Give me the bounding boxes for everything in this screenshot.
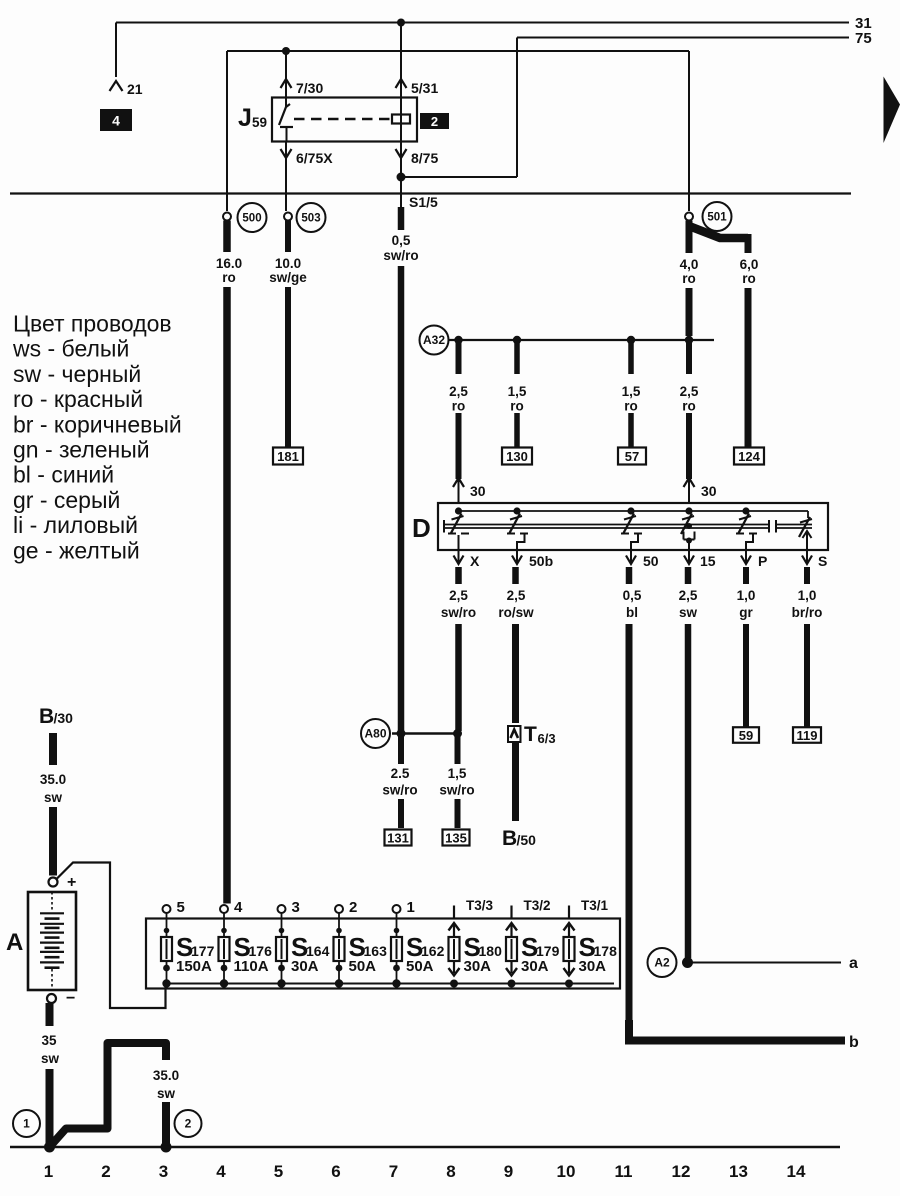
wire 1,0 br/ro from S [804,567,810,728]
relay J59 internal switch [279,98,293,142]
svg-text:J: J [238,104,252,132]
svg-text:sw/ro: sw/ro [441,605,476,620]
connector T6/3 [508,726,521,742]
svg-text:503: 503 [301,213,320,225]
relay pin 8/75 [396,142,439,208]
svg-text:2: 2 [185,1117,192,1131]
svg-text:178: 178 [594,943,618,959]
ground point 2 [161,1110,202,1153]
wire 1,5 ro to 130 [514,340,520,447]
svg-text:6,0: 6,0 [740,257,759,272]
svg-text:sw/ro: sw/ro [439,783,474,798]
fuse S177 150A [161,899,215,988]
label 35.0 sw [40,772,66,805]
label 0,5 bl [623,588,642,620]
wire to B/50 [512,742,519,821]
junction 7/30 [282,47,290,55]
wire 35.0 sw to battery [49,733,57,876]
switch D internal supply line [459,511,809,518]
svg-text:5: 5 [177,899,185,916]
svg-text:T3/2: T3/2 [524,898,551,913]
svg-text:X: X [470,553,480,569]
svg-text:59: 59 [739,728,753,743]
terminal 15 output [684,550,716,569]
terminal 30 arrow left [453,478,486,503]
switch contact S [799,517,812,550]
relay pin 7/30 [281,51,324,98]
svg-text:16.0: 16.0 [216,256,242,271]
fuse box bottom bus [166,983,614,985]
svg-text:8: 8 [446,1162,455,1181]
svg-text:2,5: 2,5 [679,588,698,603]
svg-text:3: 3 [292,899,300,916]
terminal box 131 [385,830,412,846]
svg-text:B: B [39,705,54,728]
svg-text:21: 21 [127,81,143,97]
wire 10.0 sw/ge [285,221,291,448]
svg-text:ro: ro [222,270,236,285]
svg-text:ro: ro [742,271,756,286]
svg-text:501: 501 [707,212,727,224]
fuse S180 30A [449,898,503,988]
ground point 1 [13,1110,55,1153]
separator rail top [10,192,851,194]
label 2,5 ro/sw [498,588,534,620]
label 1,5 ro [508,384,527,414]
svg-text:500: 500 [242,213,261,225]
svg-text:57: 57 [625,449,639,464]
svg-text:+: + [67,874,76,891]
svg-text:2,5: 2,5 [507,588,526,603]
fuse S179 30A [506,898,560,988]
svg-text:1,5: 1,5 [508,384,527,399]
svg-text:1: 1 [407,899,415,916]
svg-text:br/ro: br/ro [792,605,823,620]
svg-text:2,5: 2,5 [449,588,468,603]
label D [412,513,431,543]
fuse S163 50A [334,899,388,988]
wire battery positive to fuse bus [57,863,166,1009]
svg-text:T3/1: T3/1 [581,898,609,913]
wire bus 75 [401,38,849,178]
svg-text:3: 3 [159,1162,168,1181]
label 35.0 sw strap [153,1068,179,1101]
svg-text:sw: sw [41,1051,60,1066]
svg-text:8/75: 8/75 [411,150,438,166]
svg-text:6/75X: 6/75X [296,150,333,166]
svg-text:gr - серый: gr - серый [13,487,120,513]
black code box 4 [101,110,131,130]
terminal box 119 [793,727,821,743]
wire 4,0 ro from connector 501 [686,221,693,337]
svg-text:ro: ro [510,399,524,414]
wire 0,5 bl from 50 [626,567,633,1037]
page-link arrow right [884,77,900,144]
node A32 [420,326,449,355]
svg-text:2: 2 [349,899,357,916]
svg-text:sw/ge: sw/ge [269,270,307,285]
svg-text:179: 179 [536,943,560,959]
wire 2,5 sw from 15 [685,567,692,958]
svg-text:1: 1 [23,1117,30,1131]
svg-text:sw: sw [679,605,698,620]
svg-text:150A: 150A [176,958,212,975]
battery negative terminal [47,990,75,1007]
svg-text:ge - желтый: ge - желтый [13,537,140,563]
svg-text:176: 176 [249,943,273,959]
label 2,5 ro right [680,384,699,414]
wire 6,0 ro branch [689,226,748,447]
wire b [629,1020,859,1051]
label 2.5 sw/ro lower [382,766,417,798]
svg-text:sw: sw [44,790,63,805]
svg-text:30A: 30A [521,958,549,975]
label 16.0 ro [216,256,242,285]
svg-text:131: 131 [387,831,409,846]
black code box 2 [421,114,448,129]
switch contact 50 [621,507,642,550]
wire 35 sw battery to ground 1 [46,1003,54,1147]
fuse S164 30A [276,899,330,988]
label 75 [855,30,872,47]
label 1,5 ro second [622,384,641,414]
label B/50 [502,827,536,850]
svg-text:2,5: 2,5 [680,384,699,399]
svg-text:163: 163 [364,943,388,959]
connector 501 [685,202,732,231]
wire 1,5 sw/ro to 135 [455,734,461,829]
svg-text:177: 177 [191,943,215,959]
svg-text:30: 30 [701,483,717,499]
svg-text:A80: A80 [364,727,386,741]
svg-text:1: 1 [44,1162,53,1181]
bottom rail [10,1146,840,1149]
wire from connector 500 up and across to 501 [227,51,689,211]
terminal X output [454,550,481,569]
junction on bus 31 [397,19,405,27]
svg-text:sw/ro: sw/ro [383,248,418,263]
svg-text:/30: /30 [54,710,74,726]
svg-text:6: 6 [331,1162,340,1181]
svg-text:A: A [6,929,23,956]
wire bus 31 [116,23,849,78]
terminal box 124 [734,448,764,465]
label S1/5 [409,194,438,210]
svg-text:ro: ro [682,399,696,414]
svg-text:12: 12 [672,1162,691,1181]
fuse S162 50A [391,899,445,988]
svg-text:ro: ro [682,271,696,286]
svg-text:30: 30 [470,483,486,499]
svg-text:110A: 110A [234,958,269,975]
junction A32-1 [454,336,462,344]
wire 2,5 ro to terminal 30 right [686,340,692,479]
label 35 sw [41,1033,60,1066]
svg-text:59: 59 [252,115,267,130]
relay pin 5/31 [396,23,439,98]
svg-text:ro - красный: ro - красный [13,386,143,412]
wire 2,5 ro/sw from 50b [512,567,519,723]
svg-text:B: B [502,827,517,850]
label 10.0 sw/ge [269,256,307,285]
fuse box outline [146,919,620,989]
terminal 50 output [626,550,659,569]
terminal P output [741,550,767,569]
svg-text:2.5: 2.5 [391,766,410,781]
svg-text:a: a [849,955,858,972]
svg-text:11: 11 [615,1162,633,1181]
svg-text:135: 135 [445,831,467,846]
node A2 [648,948,677,977]
wire A80 bar [392,732,459,735]
svg-text:1,5: 1,5 [622,384,641,399]
switch contact 50b [507,507,528,550]
svg-text:1,0: 1,0 [737,588,756,603]
svg-text:S: S [818,553,827,569]
label 4,0 ro [680,257,699,286]
svg-text:50b: 50b [529,553,553,569]
svg-text:124: 124 [738,449,760,464]
wire a [692,955,858,972]
svg-text:181: 181 [277,449,299,464]
wire 16.0 ro [223,221,231,904]
switch D contact bar [444,520,769,533]
svg-text:li - лиловый: li - лиловый [13,512,138,538]
wire 1,0 gr from P [743,567,749,728]
svg-text:A32: A32 [423,333,445,347]
relay J59 coil actuation dashed link [294,118,391,120]
junction at 8/75 branch [397,173,406,182]
wire 2,5 sw/ro to 131 [398,734,404,829]
terminal box 135 [443,830,470,846]
svg-text:ro: ro [624,399,638,414]
svg-text:4,0: 4,0 [680,257,699,272]
svg-text:1,5: 1,5 [448,766,467,781]
junction A80 left [397,729,406,738]
svg-text:0,5: 0,5 [392,233,411,248]
fuse S178 30A [564,898,618,988]
label T6/3 [524,723,556,746]
svg-text:br - коричневый: br - коричневый [13,411,182,437]
svg-text:75: 75 [855,30,872,47]
legend wire colours [12,311,182,564]
svg-text:sw/ro: sw/ro [382,783,417,798]
svg-text:A2: A2 [654,956,670,970]
svg-text:ro: ro [452,399,466,414]
label 1,0 gr [737,588,756,620]
label 2,5 sw [679,588,698,620]
battery A box [28,892,76,990]
switch D contact bar S segment [776,520,812,533]
terminal 30 arrow right [684,478,717,503]
label 31 [855,15,872,32]
label 1,0 br/ro [792,588,823,620]
svg-text:bl - синий: bl - синий [13,462,114,488]
svg-text:5/31: 5/31 [411,80,438,96]
label 1,5 sw/ro lower [439,766,474,798]
svg-text:9: 9 [504,1162,513,1181]
label J59 [238,104,267,132]
svg-text:sw - черный: sw - черный [13,361,141,387]
svg-text:4: 4 [112,113,120,129]
svg-text:T: T [524,723,537,746]
svg-text:35.0: 35.0 [153,1068,179,1083]
svg-text:14: 14 [787,1162,806,1181]
label A [6,929,23,956]
svg-text:2: 2 [101,1162,110,1181]
wire 2,5 sw/ro from X [455,567,462,731]
svg-text:180: 180 [479,943,503,959]
svg-text:ws - белый: ws - белый [12,336,129,362]
switch contact X [448,507,469,550]
relay J59 box [272,98,417,142]
junction A32-4 [685,336,693,344]
label 2,5 ro left [449,384,468,414]
svg-text:P: P [758,553,767,569]
node A80 [361,719,390,748]
junction A80 right [453,729,462,738]
svg-text:2: 2 [431,114,438,129]
svg-text:4: 4 [234,899,243,916]
svg-text:/50: /50 [517,832,537,848]
svg-text:sw: sw [157,1086,176,1101]
svg-text:10.0: 10.0 [275,256,301,271]
junction A2 [682,957,693,968]
terminal box 130 [502,448,532,465]
connector 503 [284,203,326,232]
svg-text:bl: bl [626,605,638,620]
svg-text:4: 4 [216,1162,226,1181]
svg-text:S1/5: S1/5 [409,194,438,210]
grid numbers [44,1162,806,1181]
svg-text:50: 50 [643,553,659,569]
svg-text:30A: 30A [291,958,319,975]
wire A32 bus [449,339,715,341]
relay pin 6/75X [281,142,334,212]
svg-text:−: − [66,990,75,1007]
svg-text:50A: 50A [406,958,434,975]
svg-text:10: 10 [557,1162,576,1181]
switch contact 15 [681,507,695,550]
svg-text:0,5: 0,5 [623,588,642,603]
terminal 50b output [512,550,553,569]
svg-text:D: D [412,513,431,543]
ground strap 35.0 sw loop [50,1043,167,1147]
terminal box 59 [733,727,759,743]
svg-text:1,0: 1,0 [798,588,817,603]
svg-text:30A: 30A [464,958,492,975]
relay J59 coil [392,98,410,142]
label 0,5 sw/ro [383,233,418,263]
svg-text:ro/sw: ro/sw [498,605,534,620]
terminal 21 arrow [110,81,143,97]
svg-text:35.0: 35.0 [40,772,66,787]
junction A32-2 [513,336,521,344]
label 2,5 sw/ro [441,588,476,620]
terminal box 181 [273,448,303,465]
svg-text:13: 13 [729,1162,748,1181]
wire 1,5 ro to 57 [628,340,634,447]
terminal S output [802,550,827,569]
svg-text:7: 7 [389,1162,398,1181]
switch contact P [736,507,757,550]
svg-text:Цвет проводов: Цвет проводов [13,311,172,337]
wire 2,5 ro to terminal 30 left [456,340,462,479]
ignition switch D box [438,503,828,550]
junction A32-3 [627,336,635,344]
connector 500 [223,203,267,232]
svg-text:119: 119 [797,728,818,743]
svg-text:b: b [849,1034,859,1051]
label B/30 [39,705,73,728]
svg-text:T3/3: T3/3 [466,898,494,913]
svg-text:162: 162 [421,943,445,959]
svg-text:7/30: 7/30 [296,80,323,96]
svg-text:15: 15 [700,553,716,569]
wire 0,5 sw/ro [398,207,405,731]
svg-text:5: 5 [274,1162,283,1181]
svg-text:35: 35 [41,1033,57,1048]
terminal box 57 [618,448,646,465]
svg-text:164: 164 [306,943,330,959]
label 6,0 ro [740,257,759,286]
svg-text:50A: 50A [349,958,377,975]
svg-text:130: 130 [506,449,528,464]
battery cells [40,892,64,990]
svg-text:30A: 30A [579,958,607,975]
svg-text:2,5: 2,5 [449,384,468,399]
svg-text:gn - зеленый: gn - зеленый [13,437,150,463]
fuse S176 110A [219,899,273,988]
svg-text:6/3: 6/3 [538,731,556,746]
battery positive terminal [49,874,77,891]
svg-text:gr: gr [739,605,753,620]
